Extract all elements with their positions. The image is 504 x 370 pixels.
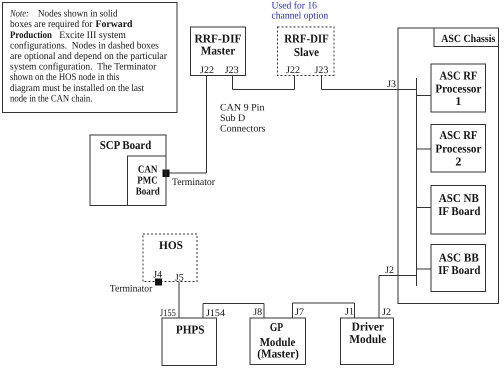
wire Master J23 down	[232, 75, 234, 89]
svg-text:CAN: CAN	[138, 165, 158, 176]
annotation: CAN 9 Pin Sub D Connectors	[220, 103, 266, 135]
wire Master J23 to Slave J22 horizontal	[233, 88, 295, 90]
svg-text:PHPS: PHPS	[176, 322, 205, 336]
box ASC RF Processor 2	[431, 125, 486, 173]
wire Master J22 down	[205, 75, 207, 173]
svg-text:J23: J23	[225, 65, 239, 76]
svg-text:HOS: HOS	[159, 239, 183, 252]
svg-text:CAN 9 Pin: CAN 9 Pin	[220, 103, 264, 114]
ASC Chassis label box	[434, 28, 499, 47]
svg-text:(Master): (Master)	[257, 346, 299, 360]
box SCP Board	[90, 135, 166, 206]
svg-text:boxes are required for: boxes are required for	[10, 19, 93, 30]
svg-text:PMC: PMC	[137, 175, 157, 186]
box HOS (dashed)	[143, 234, 197, 282]
svg-text:2: 2	[455, 154, 461, 168]
svg-text:IF Board: IF Board	[438, 263, 480, 277]
svg-text:shown on the HOS node in this: shown on the HOS node in this	[10, 72, 119, 83]
svg-text:Forward: Forward	[96, 19, 133, 30]
svg-text:are optional and depend on the: are optional and depend on the particula…	[10, 51, 168, 62]
wire Driver J2 up	[378, 275, 380, 318]
wire Driver J2 to chassis bus (J2)	[379, 274, 417, 276]
svg-text:J22: J22	[200, 65, 214, 76]
terminator on HOS J4	[155, 279, 162, 286]
CAN bus inside chassis	[416, 78, 418, 286]
svg-text:Production: Production	[10, 30, 52, 41]
wire terminator to Master J22	[169, 172, 206, 174]
box RRF-DIF Slave (dashed)	[278, 27, 334, 76]
svg-text:J2: J2	[382, 307, 391, 318]
svg-text:Sub D: Sub D	[220, 113, 245, 124]
svg-text:Processor: Processor	[435, 142, 482, 156]
svg-text:Module: Module	[349, 332, 386, 346]
note box	[3, 3, 178, 113]
terminator on CAN PMC board	[162, 169, 169, 177]
svg-text:Terminator: Terminator	[172, 177, 216, 188]
box ASC NB IF Board	[431, 186, 486, 234]
wire Driver J1 down	[353, 303, 355, 318]
svg-text:Note:: Note:	[9, 9, 29, 20]
svg-text:ASC RF: ASC RF	[439, 128, 477, 142]
svg-text:Connectors: Connectors	[220, 124, 266, 135]
svg-text:Nodes shown in solid: Nodes shown in solid	[38, 9, 118, 20]
svg-text:J1: J1	[345, 307, 354, 318]
box Driver Module	[340, 318, 393, 365]
svg-text:configurations. Nodes in dash: configurations. Nodes in dashed boxes	[10, 40, 159, 51]
svg-text:channel option: channel option	[272, 11, 329, 22]
svg-text:J7: J7	[295, 307, 304, 318]
wire Slave J23 to ASC chassis bus (J3)	[321, 88, 416, 90]
svg-text:node in the CAN chain.: node in the CAN chain.	[10, 93, 92, 104]
box ASC BB IF Board	[431, 245, 486, 292]
svg-text:RRF-DIF: RRF-DIF	[284, 32, 329, 46]
wire GP J7 to Driver J1 horizontal	[293, 302, 355, 304]
stub wire to ASC RF Processor 2	[417, 148, 431, 150]
svg-text:J22: J22	[286, 65, 300, 76]
svg-text:diagram must be installed on t: diagram must be installed on the last	[10, 83, 144, 94]
svg-text:ASC Chassis: ASC Chassis	[441, 33, 496, 45]
stub wire to ASC BB IF Board	[417, 268, 431, 270]
svg-text:GP: GP	[270, 320, 283, 334]
svg-text:J8: J8	[253, 307, 262, 318]
wire GP J7 up	[292, 303, 294, 318]
svg-text:Slave: Slave	[294, 45, 320, 59]
svg-text:J2: J2	[385, 265, 394, 276]
svg-text:1: 1	[455, 94, 461, 108]
box CAN PMC Board	[127, 156, 166, 205]
wire Slave J23 down	[320, 76, 322, 90]
wire GP J8 down	[263, 304, 265, 318]
svg-text:ASC NB: ASC NB	[439, 191, 479, 205]
stub wire to ASC RF Processor 1	[417, 95, 431, 97]
box GP Module (Master)	[250, 318, 305, 365]
svg-text:J155: J155	[160, 308, 176, 319]
box PHPS	[162, 318, 217, 365]
box RRF-DIF Master	[191, 27, 246, 75]
svg-text:J154: J154	[206, 308, 225, 319]
svg-text:J23: J23	[314, 65, 328, 76]
svg-text:SCP Board: SCP Board	[100, 138, 152, 152]
wire PHPS J154 to GP J8 horizontal	[203, 303, 264, 305]
svg-text:J3: J3	[387, 79, 396, 90]
svg-text:Excite III system: Excite III system	[59, 30, 126, 41]
stub wire to ASC NB IF Board	[417, 207, 431, 209]
svg-text:system configuration. The Ter: system configuration. The Terminator	[10, 62, 157, 73]
svg-text:Board: Board	[136, 186, 160, 197]
svg-text:IF Board: IF Board	[438, 204, 480, 218]
box ASC Chassis	[398, 28, 499, 304]
svg-text:Master: Master	[201, 44, 236, 58]
wire HOS J5 to PHPS J155	[178, 282, 180, 319]
wire Slave J22 up	[293, 76, 295, 90]
wire PHPS J154 up	[202, 304, 204, 319]
svg-text:ASC RF: ASC RF	[439, 68, 477, 82]
note text	[9, 9, 167, 105]
box ASC RF Processor 1	[431, 64, 486, 112]
svg-text:Terminator: Terminator	[110, 284, 153, 295]
annotation: Used for 16 channel option (blue)	[272, 0, 329, 21]
